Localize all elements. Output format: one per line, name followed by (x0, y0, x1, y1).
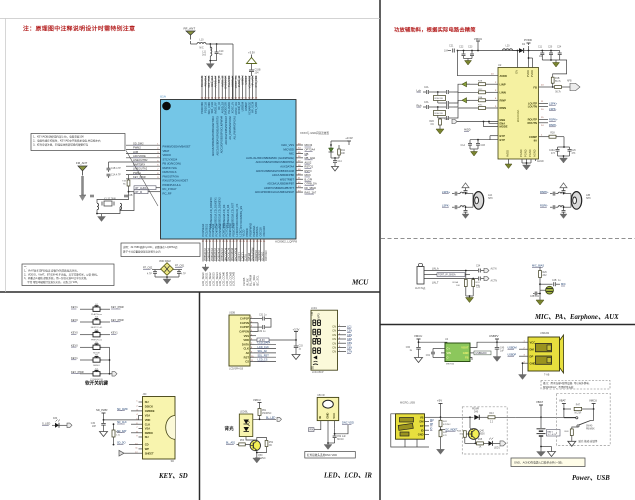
svg-text:CAP2P: CAP2P (240, 325, 249, 329)
svg-text:ADC1PROM/CLKA/USB/GP2UP: ADC1PROM/CLKA/USB/GP2UP (255, 190, 294, 194)
svg-text:C6N: C6N (347, 346, 352, 349)
net label Lch (417, 88, 427, 92)
svg-text:ME7660: ME7660 (446, 364, 455, 366)
svg-text:ID: ID (421, 428, 424, 432)
faint frame top (0, 18, 380, 20)
svg-text:RSPK+: RSPK+ (540, 190, 549, 194)
svg-text:VOUT: VOUT (461, 346, 469, 350)
svg-text:1K: 1K (479, 447, 482, 449)
svg-text:IRX: IRX (309, 429, 313, 432)
svg-text:平常 零铅中硬政打龙落头光亮。以路上扩105。: 平常 零铅中硬政打龙落头光亮。以路上扩105。 (24, 280, 80, 284)
wire PVDD caps bus (542, 59, 559, 61)
svg-text:2K2: 2K2 (543, 275, 548, 277)
svg-text:C14: C14 (338, 161, 343, 163)
wire mic bias (539, 267, 541, 270)
svg-text:CD: CD (145, 443, 149, 447)
MCU left pin names inside (163, 145, 191, 196)
svg-text:SPK: SPK (488, 197, 493, 200)
antenna FM_ANT (78, 166, 87, 176)
svg-text:C60: C60 (406, 347, 411, 349)
power flag VMCU backlight (253, 398, 262, 406)
wire FB pin (539, 85, 554, 88)
svg-text:AU_PWMN/GPIOA0: AU_PWMN/GPIOA0 (228, 115, 232, 139)
svg-text:56.7k: 56.7k (555, 81, 561, 83)
LCD driver pin names (239, 317, 249, 364)
svg-text:150R/NC: 150R/NC (262, 413, 272, 415)
capacitor C26A (549, 147, 560, 156)
net label DNC VDD (342, 421, 354, 425)
capacitor C3A input (424, 101, 433, 109)
FM antenna thick lead (79, 176, 86, 201)
wire USB gnd (522, 362, 524, 374)
svg-text:NC/10: NC/10 (337, 439, 344, 441)
svg-text:SPK: SPK (586, 197, 591, 200)
wire LINP row (454, 81, 498, 93)
svg-text:C31 1u: C31 1u (259, 315, 267, 317)
USB-A pin stubs (523, 341, 529, 364)
net label PVDD (524, 38, 532, 45)
svg-text:AGND: AGND (533, 149, 537, 157)
svg-text:OTRB_DA: OTRB_DA (305, 182, 318, 186)
svg-text:VDD: VDD (145, 418, 151, 422)
svg-text:LCD_SEG1: LCD_SEG1 (205, 272, 209, 286)
svg-text:PC3/SEG3/LCD_D3: PC3/SEG3/LCD_D3 (222, 204, 226, 228)
power flag VMCU amp (474, 37, 482, 45)
resistor R30 SD (112, 430, 121, 446)
svg-text:说明：32.768K晶体与C9C，调整落在 LQFP64边: 说明：32.768K晶体与C9C，调整落在 LQFP64边 (123, 245, 178, 249)
push button S5 MODE (71, 342, 102, 354)
note box 3 (22, 264, 114, 286)
svg-text:R2B: R2B (478, 81, 483, 83)
net label SD_DO (117, 442, 139, 445)
svg-text:C34: C34 (476, 266, 481, 268)
push button S7 POWER/ON (71, 368, 103, 380)
ground battery alt (540, 444, 555, 457)
net label SD_CMD (117, 408, 139, 411)
svg-text:CLK: CLK (243, 347, 249, 351)
ground amp inputs (436, 127, 444, 134)
wire L input junction (433, 91, 446, 95)
capacitor C2A (82, 194, 94, 197)
svg-text:VLCD: VLCD (242, 229, 246, 236)
ground USB-A (519, 375, 527, 380)
svg-text:PA5/SCL: PA5/SCL (255, 225, 259, 236)
wire PVDD rail right (528, 46, 560, 51)
svg-text:LCD_COM3: LCD_COM3 (232, 271, 236, 286)
svg-text:RC_4YDAY: RC_4YDAY (163, 187, 177, 191)
wire caps ground bus (464, 58, 473, 60)
svg-text:C2B: C2B (128, 195, 133, 197)
note red text top-left (23, 25, 135, 33)
svg-text:GND: GND (463, 351, 469, 355)
ground backlight (253, 458, 261, 463)
svg-text:贴片,拨动,自锁等: 贴片,拨动,自锁等 (579, 439, 598, 443)
svg-text:LDB: LDB (133, 150, 138, 154)
wire bundle MCU right pins (296, 145, 303, 192)
wire IR ground bus (327, 442, 335, 444)
svg-text:KEY0: KEY0 (71, 318, 78, 322)
amp left pin names (500, 74, 508, 142)
svg-text:VSA: VSA (145, 414, 151, 418)
svg-text:PA4/SDA: PA4/SDA (252, 225, 256, 236)
net flag SW arrow (444, 119, 457, 124)
svg-text:56.7k: 56.7k (555, 92, 561, 94)
pin numbers MCU bottom (202, 241, 266, 243)
svg-text:ADC6A1/USBDM/PB7: ADC6A1/USBDM/PB7 (267, 182, 294, 186)
wire ENB row (457, 121, 498, 127)
svg-text:DATA: DATA (242, 342, 249, 346)
wire byp ground bus (470, 148, 478, 150)
svg-text:NC: NC (219, 53, 223, 56)
svg-text:PVDD: PVDD (530, 70, 534, 77)
svg-text:PWM2: PWM2 (133, 146, 141, 150)
svg-text:C61: C61 (426, 355, 431, 357)
svg-text:C2A: C2A (82, 194, 87, 197)
svg-text:CN: CN (332, 337, 336, 341)
svg-text:C1B 4.7P: C1B 4.7P (111, 168, 121, 170)
svg-text:R2D: R2D (429, 121, 434, 123)
svg-text:FM: FM (311, 312, 314, 315)
section divider vertical bottom-left (199, 292, 201, 500)
svg-text:NFB: NFB (567, 81, 572, 83)
svg-text:PGND: PGND (528, 149, 532, 157)
svg-text:RINN: RINN (500, 106, 507, 110)
power flag VBAT (536, 400, 543, 417)
ground AGND (505, 164, 512, 169)
inductor LX2 (97, 203, 122, 213)
LCD display pin wires (338, 325, 347, 352)
svg-text:NU: NU (145, 435, 149, 439)
capacitor C1B (107, 166, 122, 172)
svg-text:VCC: VCC (332, 413, 336, 419)
svg-text:2、电源布线在打板时，KEY/AD中于暂借龙电电,并且按左右: 2、电源布线在打板时，KEY/AD中于暂借龙电电,并且按左右 (33, 139, 101, 143)
svg-text:VMCU: VMCU (474, 37, 482, 41)
svg-text:PB4/IR: PB4/IR (245, 228, 249, 236)
switch SW1 (564, 409, 595, 431)
svg-text:KEY_PWR: KEY_PWR (111, 305, 124, 309)
svg-text:ADC/USB/GPIOB2/USBDP/PA2: ADC/USB/GPIOB2/USBDP/PA2 (256, 160, 295, 164)
net label SDL_RST (254, 354, 276, 357)
svg-text:LINP: LINP (500, 82, 506, 86)
label soft power key (85, 380, 108, 387)
svg-text:C1A 4.7P: C1A 4.7P (111, 174, 121, 177)
wire aux resistor bus (466, 295, 473, 297)
svg-text:SYS_VDD: SYS_VDD (254, 75, 258, 87)
net flag diode (67, 423, 72, 428)
label backlight (225, 425, 235, 432)
resistor R52 (265, 441, 274, 448)
svg-text:R53: R53 (240, 440, 245, 442)
audio amp U2 designator (498, 63, 502, 67)
svg-text:PWM0/OSDA/VBAOET: PWM0/OSDA/VBAOET (163, 145, 191, 149)
wire SD_PWR down (103, 415, 139, 420)
capacitor C60 (406, 347, 421, 358)
svg-text:LCD/SPH-1B: LCD/SPH-1B (229, 368, 243, 371)
net labels MCU right pins (305, 143, 318, 194)
capacitor C61 pump (426, 349, 441, 358)
svg-text:**：: **： (24, 266, 28, 269)
svg-text:NU: NU (145, 400, 149, 404)
SD card pin names (145, 400, 155, 455)
net label DC_INDET (440, 428, 458, 431)
svg-text:LED、LCD、IR: LED、LCD、IR (323, 473, 372, 480)
power flag SD_PWR (96, 408, 108, 416)
svg-text:LCD_SEG0: LCD_SEG0 (201, 272, 205, 286)
net labels MCU top pins (200, 75, 258, 89)
svg-text:LCD_COM2: LCD_COM2 (228, 271, 232, 286)
svg-text:AUXL/AUXR/USBDM/MIC (GAIN/PAF: AUXL/AUXR/USBDM/MIC (GAIN/PAFE) (246, 156, 294, 160)
svg-text:Lch: Lch (417, 88, 422, 92)
resistor R42 (439, 430, 448, 449)
svg-text:COMP: COMP (529, 135, 537, 139)
wire VMCU rail (457, 45, 521, 51)
svg-text:L20: L20 (506, 45, 511, 48)
note box single point ground (511, 458, 585, 467)
IR receiver pin names (318, 413, 336, 419)
svg-text:ROUTN: ROUTN (527, 121, 537, 125)
svg-text:DNC VDD: DNC VDD (342, 421, 354, 425)
note box 1 (31, 134, 125, 151)
svg-text:VCC: VCC (530, 340, 536, 344)
wire sw vbat down (563, 409, 565, 418)
resistor R48 (564, 429, 573, 441)
svg-text:LCD_SEG2: LCD_SEG2 (208, 272, 212, 286)
svg-text:ALTN: ALTN (491, 268, 497, 271)
svg-text:CAP1N: CAP1N (240, 321, 249, 325)
svg-text:RSPK+: RSPK+ (549, 118, 558, 122)
label MIC PA Earphone AUX (534, 314, 619, 321)
switch dashed box (556, 393, 610, 445)
wire VOUT to USBPV (470, 341, 498, 347)
net box RT_AUDIO (134, 186, 161, 190)
svg-text:SHEET: SHEET (145, 451, 154, 455)
note box 2 (121, 243, 200, 257)
antenna ANT1 (186, 31, 195, 40)
svg-text:PC0/SEG0/LCD_D0/KEY0: PC0/SEG0/LCD_D0/KEY0 (209, 197, 213, 228)
svg-text:红外接收头选用DNC VDD: 红外接收头选用DNC VDD (307, 453, 337, 457)
inductor L10 (197, 39, 206, 50)
svg-text:PC4/SEG4/LCD_D4: PC4/SEG4/LCD_D4 (226, 204, 230, 228)
svg-text:VLCD5: VLCD5 (242, 277, 246, 286)
svg-text:RT_AUDIO: RT_AUDIO (136, 187, 148, 190)
net label USBDM (508, 346, 523, 349)
wire crystal RTC top (97, 192, 134, 211)
svg-text:IR_RX: IR_RX (245, 278, 249, 286)
push button S3 NEXT/V+01 (71, 317, 124, 329)
wire ROUTP (539, 117, 559, 121)
capacitor C1A byp (461, 140, 472, 149)
svg-text:R47: R47 (576, 405, 581, 407)
svg-text:USB9LDO: USB9LDO (476, 352, 487, 355)
svg-text:KEY、SD: KEY、SD (158, 473, 188, 480)
svg-text:N/C: N/C (199, 47, 204, 50)
ground AUX (466, 298, 474, 303)
net flag key common (112, 372, 117, 377)
svg-text:9A: 9A (534, 139, 537, 143)
ground lcd cap (292, 355, 300, 360)
charge pump pin names (447, 346, 469, 360)
LCD display CN pin names (332, 325, 336, 354)
power flag VMCU pwr (414, 334, 422, 343)
svg-text:C52 1uF: C52 1uF (337, 436, 346, 438)
svg-text:ADCVDRE: ADCVDRE (133, 154, 146, 158)
svg-text:VMCU: VMCU (253, 398, 261, 402)
svg-text:MIX2018A: MIX2018A (516, 110, 520, 123)
net label RF_ANT (184, 27, 196, 31)
svg-text:1、VbAT处车用F钽电容 提供5V的回路电容李亮。: 1、VbAT处车用F钽电容 提供5V的回路电容李亮。 (24, 269, 79, 273)
capacitor C2C input (447, 101, 454, 105)
power flag +3.3V lcd (293, 328, 300, 341)
svg-text:PWM1: PWM1 (133, 171, 141, 175)
LCD driver pin stubs (250, 317, 254, 362)
capacitor C35 aux R (476, 277, 484, 289)
inductor L20 (502, 45, 517, 51)
MCU top pin names inside (200, 101, 258, 115)
svg-text:VSS: VSS (244, 334, 250, 338)
LCD display icons top (311, 312, 321, 318)
svg-text:KEY_PWR: KEY_PWR (133, 175, 146, 179)
svg-text:C3A: C3A (424, 101, 429, 104)
svg-text:MB: MB (305, 152, 309, 156)
power flag +3.3V top (247, 51, 257, 64)
svg-text:LSPK-: LSPK- (549, 107, 557, 111)
svg-text:备注：用于连接U盘等设备, 可以向外供电,: 备注：用于连接U盘等设备, 可以向外供电, (543, 381, 590, 385)
svg-text:C33: C33 (299, 346, 304, 348)
svg-text:C26: C26 (572, 150, 577, 152)
inductor LX1 (97, 203, 99, 213)
net label Rch (417, 103, 427, 107)
svg-text:D40: D40 (474, 412, 479, 414)
svg-text:CS: CS (245, 360, 249, 364)
speaker jack right channel (540, 183, 591, 219)
LCD display digits (313, 320, 321, 353)
wire bundle MCU left pins (126, 145, 161, 179)
svg-text:SD_DM2: SD_DM2 (133, 141, 144, 145)
resistor R24B (472, 279, 480, 297)
svg-text:C1B: C1B (481, 145, 486, 147)
svg-text:KEY_PWR: KEY_PWR (111, 318, 124, 322)
svg-text:KEY0: KEY0 (71, 331, 78, 335)
svg-text:2、VDDIO、VbAT、BT/33K46.9°再电，异学可: 2、VDDIO、VbAT、BT/33K46.9°再电，异学可靠打米，以铝 焊机。 (24, 272, 99, 276)
svg-text:RINP: RINP (500, 98, 507, 102)
svg-text:10K: 10K (476, 285, 480, 287)
wire LOUTN (539, 107, 557, 111)
capacitor C10 (215, 44, 224, 61)
svg-text:DAC_VSS: DAC_VSS (281, 143, 294, 147)
svg-text:XXXX与 GND间就近放置: XXXX与 GND间就近放置 (300, 131, 329, 135)
svg-text:CN: CN (332, 333, 336, 337)
wire FB gnd (470, 358, 472, 361)
wire LED to rail (330, 141, 349, 158)
svg-text:RSTO: RSTO (305, 169, 312, 173)
resistor R43 (488, 413, 516, 424)
wire AGND2 pin down (536, 159, 544, 163)
svg-text:C24: C24 (557, 47, 562, 49)
svg-text:C40: C40 (500, 348, 505, 350)
svg-text:U30B: U30B (229, 312, 235, 315)
MCU U1 designator (160, 95, 166, 99)
svg-text:USB/AM: USB/AM (540, 332, 549, 335)
svg-text:MIC: MIC (561, 282, 566, 286)
wire AUX mid (424, 274, 470, 276)
ground MIC (536, 300, 544, 305)
ground crystal X2 (163, 279, 171, 284)
svg-text:VBAT: VBAT (559, 399, 566, 403)
svg-text:ADM7/USBDM/GPB7/PT: ADM7/USBDM/GPB7/PT (264, 186, 294, 190)
svg-text:DM: DM (419, 420, 423, 424)
svg-text:SDL_RST: SDL_RST (258, 354, 270, 357)
resistor R44 (457, 431, 468, 444)
svg-text:LCD_COM1: LCD_COM1 (225, 271, 229, 286)
diode D2 (519, 43, 529, 53)
LCD driver U30 body (229, 312, 250, 371)
svg-text:R26: R26 (543, 272, 548, 274)
svg-text:R51: R51 (262, 410, 267, 412)
net flag ALTN (484, 268, 497, 273)
USB-A pin names (530, 340, 536, 365)
net label BL_ADJ (226, 442, 239, 445)
svg-text:MIC33: MIC33 (305, 143, 313, 147)
section divider horizontal MCU bottom (0, 291, 380, 293)
net flag FB arrow (566, 81, 580, 91)
backlight LED box (239, 412, 253, 437)
svg-text:CN: CN (332, 350, 336, 354)
svg-text:DMX/XOLS: DMX/XOLS (163, 170, 177, 174)
svg-text:LCD-C8CP: LCD-C8CP (312, 372, 324, 374)
svg-text:LED1: LED1 (494, 448, 500, 450)
svg-text:X1 32.768K: X1 32.768K (104, 199, 116, 201)
svg-text:RM/ON SIG: RM/ON SIG (163, 166, 177, 170)
MCU inner lower pin names (209, 197, 243, 228)
svg-text:限流100mA；不用时可去掉: 限流100mA；不用时可去掉 (543, 385, 574, 389)
wire pump cap1n (254, 323, 258, 332)
svg-text:MICRO_USB: MICRO_USB (400, 402, 415, 405)
ground VMCU cap (415, 358, 423, 363)
net label LCD_DATA (254, 342, 276, 345)
svg-text:LCD_COM0: LCD_COM0 (222, 271, 226, 286)
svg-text:SYS_VDD: SYS_VDD (254, 102, 258, 114)
resistor R11 (338, 145, 346, 158)
net label AVDD small (464, 129, 471, 132)
svg-text:NC: NC (431, 124, 435, 126)
transistor Q50 (250, 440, 266, 460)
svg-text:PC1/SEG1: PC1/SEG1 (204, 223, 208, 236)
ground amp input caps (465, 59, 472, 66)
svg-text:IR: IR (318, 416, 322, 419)
svg-text:R28: R28 (550, 133, 555, 135)
svg-text:MENU: MENU (93, 365, 100, 367)
wire antenna to L10 (191, 41, 198, 44)
USB-A J60 body (528, 332, 564, 377)
power flag +5V (437, 399, 443, 407)
diode D40 (462, 409, 488, 420)
ground switch (568, 441, 576, 446)
svg-text:功放辅助料，根据实际电路去精简: 功放辅助料，根据实际电路去精简 (394, 26, 476, 34)
power flag USBPV (489, 334, 499, 342)
svg-text:靠子十对应重要处就近放置头之内: 靠子十对应重要处就近放置头之内 (123, 250, 161, 254)
capacitor C52 IR (333, 434, 347, 443)
resistor network R (434, 111, 447, 119)
switch note text (579, 439, 598, 443)
svg-text:OSC32O: OSC32O (264, 250, 268, 261)
svg-text:Q50: Q50 (258, 455, 263, 457)
svg-text:LSPK+: LSPK+ (442, 190, 451, 194)
wire USBPV to USB VCC (497, 341, 523, 343)
svg-text:GND: GND (418, 433, 424, 437)
wire L10 to MCU (206, 43, 233, 99)
wire RINN row (454, 105, 498, 119)
svg-text:OSC32O: OSC32O (262, 226, 266, 237)
